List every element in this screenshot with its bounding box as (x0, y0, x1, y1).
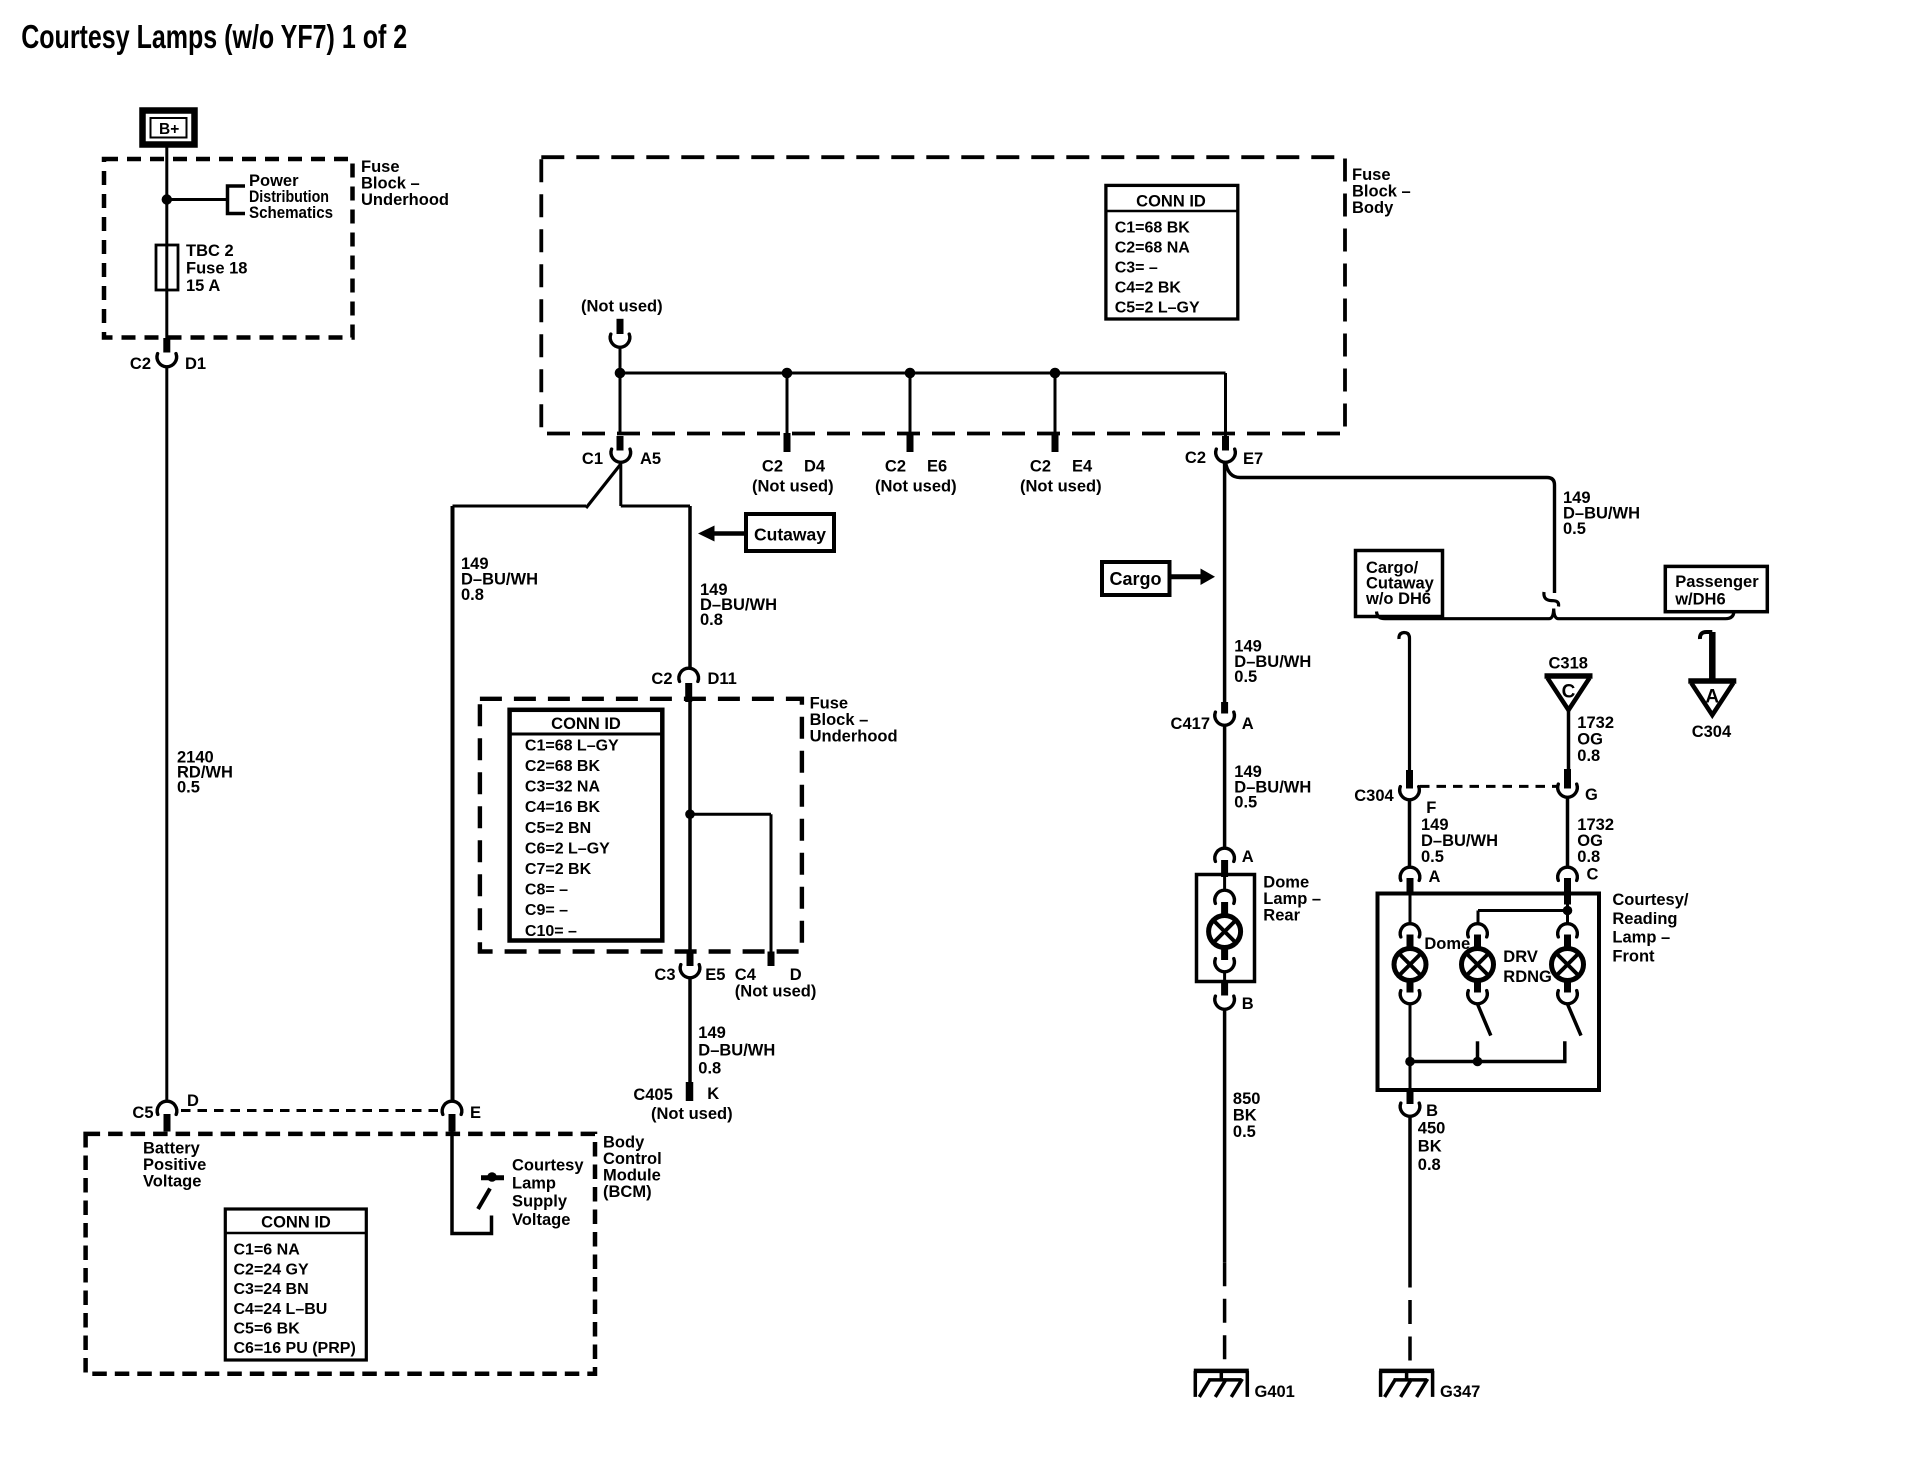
svg-text:G347: G347 (1440, 1383, 1480, 1401)
svg-text:(Not used): (Not used) (1020, 478, 1102, 496)
svg-text:Body: Body (603, 1134, 645, 1152)
svg-text:C405: C405 (633, 1086, 672, 1104)
svg-text:0.5: 0.5 (1234, 794, 1257, 812)
svg-text:0.5: 0.5 (177, 779, 200, 797)
svg-text:0.8: 0.8 (1577, 747, 1600, 765)
svg-text:C1: C1 (582, 450, 603, 468)
svg-text:Reading: Reading (1612, 910, 1677, 928)
svg-text:G: G (1585, 786, 1598, 804)
svg-text:D11: D11 (708, 670, 737, 688)
svg-text:Block –: Block – (1352, 182, 1411, 200)
svg-text:Fuse: Fuse (361, 158, 400, 176)
svg-text:Voltage: Voltage (143, 1173, 201, 1191)
svg-text:C2: C2 (1030, 458, 1051, 476)
svg-text:C5: C5 (132, 1104, 153, 1122)
svg-text:A: A (1429, 868, 1441, 886)
svg-text:Underhood: Underhood (361, 191, 449, 209)
svg-text:Cutaway: Cutaway (754, 525, 826, 545)
svg-text:C10= –: C10= – (525, 923, 577, 940)
svg-text:A: A (1705, 687, 1719, 708)
svg-text:E5: E5 (705, 966, 725, 984)
svg-text:149: 149 (698, 1024, 726, 1042)
svg-text:0.5: 0.5 (1421, 848, 1444, 866)
svg-text:A: A (1242, 848, 1254, 866)
svg-text:Block –: Block – (361, 175, 420, 193)
svg-text:E6: E6 (927, 458, 947, 476)
svg-text:C2: C2 (130, 355, 151, 373)
svg-text:C2=24 GY: C2=24 GY (234, 1261, 309, 1278)
svg-text:BK: BK (1418, 1138, 1442, 1156)
svg-text:OG: OG (1577, 731, 1603, 749)
svg-text:C2=68 NA: C2=68 NA (1115, 240, 1191, 257)
svg-text:C304: C304 (1354, 787, 1394, 805)
svg-text:15 A: 15 A (186, 277, 220, 295)
svg-text:Underhood: Underhood (810, 728, 898, 746)
svg-text:Dome: Dome (1263, 873, 1309, 891)
svg-text:D1: D1 (185, 355, 206, 373)
svg-text:C4=2 BK: C4=2 BK (1115, 279, 1182, 296)
svg-text:D–BU/WH: D–BU/WH (698, 1042, 775, 1060)
svg-text:E4: E4 (1072, 458, 1093, 476)
svg-text:C2=68 BK: C2=68 BK (525, 758, 601, 775)
svg-text:Cargo: Cargo (1109, 569, 1161, 589)
svg-text:C8= –: C8= – (525, 882, 568, 899)
svg-text:D4: D4 (804, 458, 826, 476)
svg-text:C1=68 L–GY: C1=68 L–GY (525, 737, 619, 754)
svg-text:G401: G401 (1255, 1383, 1295, 1401)
svg-text:CONN ID: CONN ID (551, 715, 621, 733)
svg-text:C3=32 NA: C3=32 NA (525, 779, 601, 796)
svg-text:C1=68 BK: C1=68 BK (1115, 220, 1191, 237)
svg-text:Lamp –: Lamp – (1263, 890, 1321, 908)
svg-text:C4=16 BK: C4=16 BK (525, 799, 601, 816)
svg-text:Dome: Dome (1424, 935, 1470, 953)
svg-text:0.8: 0.8 (700, 611, 723, 629)
svg-text:C5=6 BK: C5=6 BK (234, 1321, 301, 1338)
svg-text:TBC 2: TBC 2 (186, 242, 234, 260)
svg-text:B+: B+ (159, 121, 179, 138)
svg-text:CONN ID: CONN ID (1136, 193, 1206, 211)
svg-text:DRV: DRV (1503, 948, 1538, 966)
svg-text:B: B (1426, 1102, 1438, 1120)
svg-text:C: C (1562, 682, 1576, 703)
svg-text:Courtesy/: Courtesy/ (1612, 891, 1689, 909)
svg-text:CONN ID: CONN ID (261, 1214, 331, 1232)
svg-text:Fuse: Fuse (1352, 166, 1391, 184)
svg-text:Schematics: Schematics (249, 204, 333, 222)
svg-text:C3: C3 (654, 966, 675, 984)
svg-text:w/o DH6: w/o DH6 (1365, 590, 1431, 608)
svg-text:(Not used): (Not used) (581, 298, 663, 316)
svg-text:Supply: Supply (512, 1193, 568, 1211)
svg-text:C304: C304 (1692, 723, 1732, 741)
svg-text:C2: C2 (885, 458, 906, 476)
svg-text:K: K (707, 1085, 719, 1103)
svg-text:0.5: 0.5 (1234, 668, 1257, 686)
svg-text:C3= –: C3= – (1115, 260, 1158, 277)
svg-text:C6=16 PU (PRP): C6=16 PU (PRP) (234, 1340, 356, 1357)
svg-text:(Not used): (Not used) (752, 478, 834, 496)
svg-text:Rear: Rear (1263, 907, 1300, 925)
svg-text:F: F (1426, 799, 1436, 817)
svg-text:(BCM): (BCM) (603, 1183, 652, 1201)
svg-text:Battery: Battery (143, 1140, 201, 1158)
svg-text:450: 450 (1418, 1120, 1446, 1138)
svg-text:C2: C2 (1185, 449, 1206, 467)
svg-text:(Not used): (Not used) (651, 1105, 733, 1123)
svg-text:Block –: Block – (810, 711, 869, 729)
svg-text:Module: Module (603, 1167, 661, 1185)
svg-text:Body: Body (1352, 199, 1394, 217)
svg-text:0.5: 0.5 (1233, 1123, 1256, 1141)
svg-text:D: D (790, 966, 802, 984)
svg-text:BK: BK (1233, 1106, 1257, 1124)
svg-text:A5: A5 (640, 450, 661, 468)
svg-text:C3=24 BN: C3=24 BN (234, 1281, 309, 1298)
svg-text:Courtesy: Courtesy (512, 1156, 584, 1174)
svg-text:Fuse: Fuse (810, 695, 849, 713)
svg-text:0.5: 0.5 (1563, 520, 1586, 538)
svg-text:Passenger: Passenger (1675, 573, 1759, 591)
svg-text:Control: Control (603, 1150, 662, 1168)
svg-text:Positive: Positive (143, 1156, 206, 1174)
svg-text:850: 850 (1233, 1090, 1261, 1108)
svg-text:C4: C4 (735, 966, 757, 984)
svg-text:D: D (187, 1092, 199, 1110)
svg-text:C4=24 L–BU: C4=24 L–BU (234, 1301, 328, 1318)
svg-text:C6=2 L–GY: C6=2 L–GY (525, 840, 610, 857)
svg-text:C9= –: C9= – (525, 902, 568, 919)
svg-text:Voltage: Voltage (512, 1211, 570, 1229)
svg-text:C1=6 NA: C1=6 NA (234, 1242, 301, 1259)
svg-text:Lamp: Lamp (512, 1175, 556, 1193)
svg-text:C417: C417 (1171, 715, 1210, 733)
svg-text:C2: C2 (762, 458, 783, 476)
svg-text:E: E (470, 1104, 481, 1122)
svg-text:0.8: 0.8 (1418, 1156, 1441, 1174)
svg-text:C7=2 BK: C7=2 BK (525, 861, 592, 878)
svg-text:0.8: 0.8 (1577, 848, 1600, 866)
svg-text:w/DH6: w/DH6 (1674, 590, 1725, 608)
svg-text:1732: 1732 (1577, 714, 1614, 732)
svg-text:C: C (1587, 866, 1599, 884)
svg-text:A: A (1242, 715, 1254, 733)
svg-text:(Not used): (Not used) (875, 478, 957, 496)
svg-text:C2: C2 (651, 670, 672, 688)
svg-text:(Not used): (Not used) (735, 983, 817, 1001)
svg-text:0.8: 0.8 (461, 586, 484, 604)
svg-text:Courtesy Lamps (w/o YF7) 1 of: Courtesy Lamps (w/o YF7) 1 of 2 (21, 19, 407, 56)
svg-text:C318: C318 (1549, 655, 1588, 673)
svg-text:0.8: 0.8 (698, 1059, 721, 1077)
svg-text:E7: E7 (1243, 450, 1263, 468)
svg-text:Front: Front (1612, 947, 1655, 965)
svg-text:RDNG: RDNG (1503, 968, 1552, 986)
svg-text:C5=2 L–GY: C5=2 L–GY (1115, 299, 1200, 316)
svg-text:B: B (1242, 995, 1254, 1013)
svg-text:C5=2 BN: C5=2 BN (525, 820, 591, 837)
svg-text:Lamp –: Lamp – (1612, 929, 1670, 947)
svg-text:Fuse 18: Fuse 18 (186, 260, 247, 278)
